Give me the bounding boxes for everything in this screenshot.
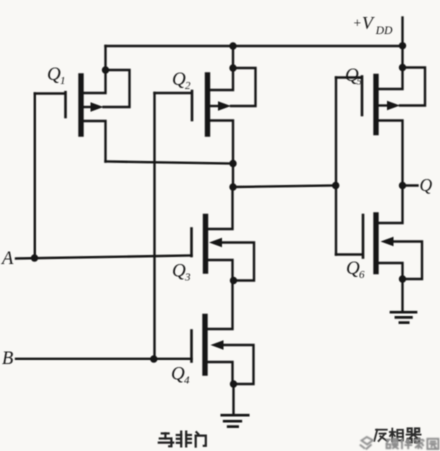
svg-text:2: 2 <box>185 80 191 92</box>
svg-text:Q: Q <box>346 258 360 279</box>
glyph 器 <box>407 428 421 442</box>
glyph 硬 <box>386 439 399 449</box>
junction dot Q2 bulk <box>229 64 236 71</box>
svg-text:4: 4 <box>184 375 190 387</box>
svg-text:Q: Q <box>420 175 433 195</box>
wire A to Q1 gate <box>34 94 36 259</box>
transistor Q6 <box>363 186 422 280</box>
transistor Q3 <box>192 187 255 281</box>
glyph 园 <box>427 439 438 449</box>
svg-text:5: 5 <box>357 76 363 88</box>
glyph 家 <box>414 437 423 449</box>
junction dot Q3 source / Q4 drain <box>230 277 237 284</box>
glyph 非 <box>177 432 191 447</box>
label Q2 <box>172 69 191 92</box>
junction dot Q1 drain/bulk <box>102 66 109 73</box>
input B wire <box>16 358 192 360</box>
wire NAND output to inverter input <box>233 186 336 188</box>
wire to Q6 gate <box>336 253 362 255</box>
svg-text:B: B <box>2 349 13 369</box>
svg-text:Q: Q <box>171 364 185 385</box>
svg-text:Q: Q <box>172 69 186 90</box>
junction dot NAND output <box>229 183 236 190</box>
wire ground stem inverter <box>401 279 403 311</box>
transistor Q2 <box>155 46 256 164</box>
svg-text:DD: DD <box>375 25 393 37</box>
caption NAND gate (与非门) <box>159 432 206 447</box>
label Q5 <box>345 65 363 88</box>
glyph 件 <box>401 438 412 449</box>
label Q1 <box>47 64 66 87</box>
glyph 门 <box>196 432 206 446</box>
svg-text:Q: Q <box>172 261 186 282</box>
wire output node vertical <box>232 164 234 188</box>
+VDD supply stub <box>401 18 403 47</box>
ground symbol inverter <box>391 312 416 322</box>
junction dot inverter output <box>399 182 406 189</box>
watermark text 硬件家园 <box>386 437 438 449</box>
junction dot VDD rail right <box>399 42 406 49</box>
junction dot Q6 source <box>399 275 406 282</box>
glyph 与 <box>159 433 173 446</box>
junction dot NAND pullup sources <box>229 160 236 167</box>
junction dot Q4 source <box>230 380 237 387</box>
wire Q1 source to NAND output node <box>106 162 234 164</box>
svg-text:+: + <box>354 16 362 31</box>
junction dot Q2 drain at rail <box>229 42 236 49</box>
watermark logo icon <box>360 437 373 449</box>
svg-text:3: 3 <box>184 272 191 284</box>
junction dot input B <box>150 355 157 362</box>
glyph 反 <box>374 430 387 441</box>
wire output stub to Q <box>403 184 418 186</box>
junction dot Q5 bulk <box>399 64 406 71</box>
junction dot inverter input <box>332 182 339 189</box>
label Q3 <box>172 261 191 284</box>
label Q4 <box>171 364 190 387</box>
transistor Q4 <box>192 281 254 385</box>
svg-text:Q: Q <box>47 64 61 85</box>
glyph 相 <box>390 429 403 442</box>
transistor Q5 <box>336 46 425 186</box>
svg-text:1: 1 <box>60 75 66 87</box>
transistor Q1 <box>35 46 130 162</box>
label Q6 <box>346 258 365 281</box>
input A wire <box>16 256 192 259</box>
svg-text:6: 6 <box>359 269 365 281</box>
wire VDD rail <box>106 45 403 47</box>
ground symbol NAND <box>222 415 248 426</box>
caption inverter (反相器) <box>374 428 420 442</box>
label +VDD <box>354 13 394 37</box>
svg-text:A: A <box>0 249 14 269</box>
junction dot input A <box>31 254 38 261</box>
wire B input to Q2 gate <box>153 93 155 359</box>
wire ground stem NAND <box>232 384 234 414</box>
wire inverter input gates <box>335 78 337 255</box>
